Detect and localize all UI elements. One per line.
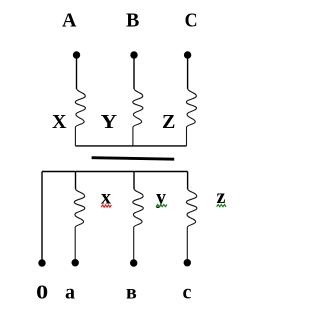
svg-text:в: в: [126, 282, 137, 304]
svg-text:с: с: [183, 282, 192, 304]
svg-text:0: 0: [36, 282, 48, 304]
svg-text:a: a: [65, 282, 75, 304]
svg-text:Y: Y: [101, 111, 118, 133]
svg-text:C: C: [185, 10, 198, 32]
svg-text:X: X: [52, 111, 67, 133]
svg-text:B: B: [126, 10, 139, 32]
svg-text:A: A: [62, 10, 77, 32]
svg-text:Z: Z: [162, 111, 175, 133]
